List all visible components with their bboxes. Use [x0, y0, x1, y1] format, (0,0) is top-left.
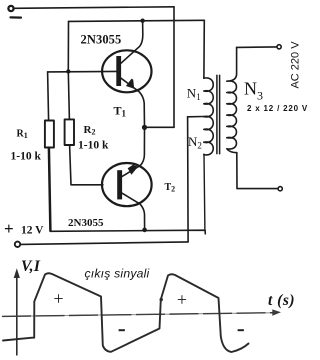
waveform output signal — [3, 273, 249, 352]
transistor T2 upper arrow — [128, 165, 138, 175]
transistor T1 collector line — [121, 21, 143, 63]
svg-text:T2: T2 — [165, 182, 176, 194]
svg-text:+: + — [53, 289, 63, 309]
svg-text:2 x 12 / 220 V: 2 x 12 / 220 V — [247, 104, 308, 113]
transistor T2 upper line — [122, 128, 144, 176]
transistor T2 body — [102, 163, 152, 206]
label minus 2 — [238, 329, 244, 331]
wire collector rail — [69, 20, 205, 21]
transformer secondary winding N3 — [227, 47, 237, 152]
transistor T1 emitter line — [121, 78, 145, 127]
junction collector rail — [140, 19, 144, 23]
transistor T1 emitter arrow — [126, 79, 134, 89]
svg-text:+: + — [177, 290, 187, 310]
wire T1 base — [48, 70, 117, 73]
wire horizontal into emitter junction — [145, 126, 175, 128]
transformer core line 2 — [219, 75, 221, 154]
svg-text:V,I: V,I — [21, 258, 41, 275]
svg-text:1-10 k: 1-10 k — [78, 140, 109, 152]
wire down to R2 — [68, 72, 69, 120]
junction base feedback — [66, 69, 70, 73]
terminal +12V — [15, 242, 20, 247]
wire secondary bottom — [237, 153, 278, 189]
transistor T2 base bar — [117, 170, 122, 199]
wire N2 bottom vertical — [203, 154, 206, 230]
resistor R1 — [45, 121, 54, 148]
terminal minus (top-left) — [8, 6, 13, 11]
svg-text:2N3055: 2N3055 — [81, 32, 122, 46]
wire emitter rail bottom — [50, 230, 205, 234]
svg-text:t (s): t (s) — [268, 292, 295, 309]
svg-text:N1: N1 — [187, 86, 201, 103]
svg-text:N3: N3 — [244, 79, 263, 103]
transistor T1 body — [102, 50, 151, 92]
graph x axis — [2, 313, 274, 317]
junction emitter rail — [142, 228, 147, 233]
transistor T2 lower line — [122, 193, 145, 230]
wire primary top vertical — [203, 21, 205, 79]
transformer primary winding N1 — [204, 78, 213, 117]
transformer primary winding N2 — [204, 116, 213, 155]
wire +12V line — [21, 242, 189, 245]
label minus 1 — [119, 329, 125, 331]
svg-text:R1: R1 — [17, 128, 28, 140]
wire R2 bottom to T2 base — [70, 145, 103, 185]
wire center tap vertical — [187, 117, 190, 242]
svg-text:T1: T1 — [114, 104, 127, 119]
wire right vertical from top rail — [173, 7, 175, 128]
transistor T1 base bar — [116, 56, 121, 86]
svg-text:+: + — [4, 219, 14, 238]
wire top rail — [14, 7, 174, 9]
wire down to R1 — [48, 72, 49, 121]
svg-text:12 V: 12 V — [21, 225, 44, 237]
svg-text:2N3055: 2N3055 — [68, 217, 104, 229]
transformer core line 1 — [216, 75, 218, 153]
graph y axis — [16, 274, 18, 356]
wire R1 bottom — [49, 148, 51, 231]
svg-text:N2: N2 — [188, 134, 202, 151]
wire AC top — [237, 46, 277, 49]
wire vertical feedback left — [67, 21, 69, 71]
junction emitter T1 T2 — [142, 125, 147, 130]
svg-text:çıkış sinyali: çıkış sinyali — [85, 267, 150, 281]
resistor R2 — [65, 119, 74, 145]
svg-text:1-10 k: 1-10 k — [11, 151, 42, 163]
svg-text:R2: R2 — [84, 124, 96, 137]
terminal AC top — [277, 45, 281, 49]
waveform junction blob — [160, 298, 163, 301]
terminal AC bottom — [278, 187, 282, 191]
minus sign — [11, 16, 22, 18]
wire center tap horizontal — [188, 116, 204, 118]
svg-text:AC 220 V: AC 220 V — [290, 41, 302, 89]
